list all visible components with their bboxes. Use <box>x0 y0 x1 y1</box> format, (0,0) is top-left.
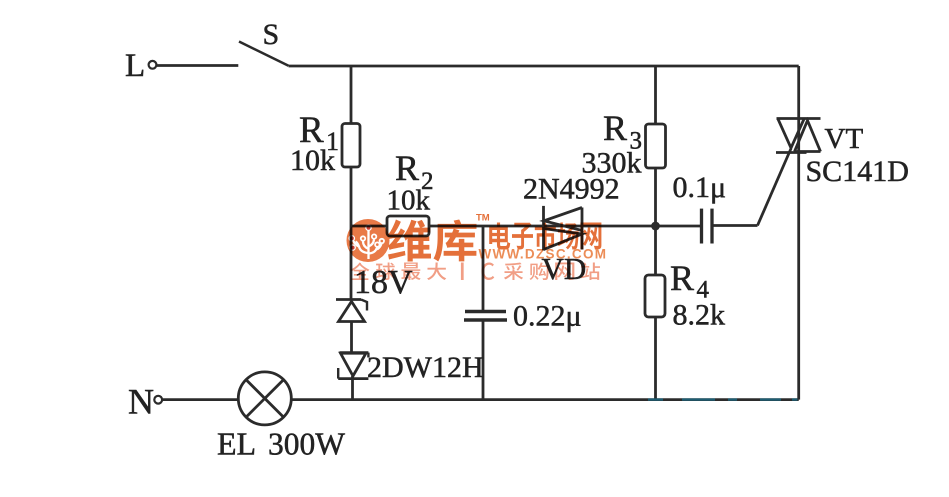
svg-text:R: R <box>603 108 627 148</box>
svg-text:R: R <box>395 148 419 188</box>
svg-text:VT: VT <box>825 123 864 155</box>
svg-text:10k: 10k <box>387 185 431 217</box>
svg-text:0.1μ: 0.1μ <box>673 171 727 204</box>
svg-text:R: R <box>670 258 694 298</box>
svg-text:0.22μ: 0.22μ <box>513 300 582 333</box>
svg-text:10k: 10k <box>290 144 335 177</box>
svg-text:L: L <box>125 48 145 84</box>
svg-text:SC141D: SC141D <box>806 155 909 188</box>
svg-text:S: S <box>263 18 280 51</box>
svg-text:2DW12H: 2DW12H <box>367 351 484 384</box>
svg-text:8.2k: 8.2k <box>673 299 726 332</box>
svg-text:TM: TM <box>476 213 490 224</box>
svg-text:EL: EL <box>217 426 256 462</box>
svg-text:300W: 300W <box>268 427 345 462</box>
svg-text:N: N <box>128 382 154 422</box>
svg-text:330k: 330k <box>582 147 642 180</box>
svg-text:WWW.DZSC.COM: WWW.DZSC.COM <box>479 247 608 262</box>
